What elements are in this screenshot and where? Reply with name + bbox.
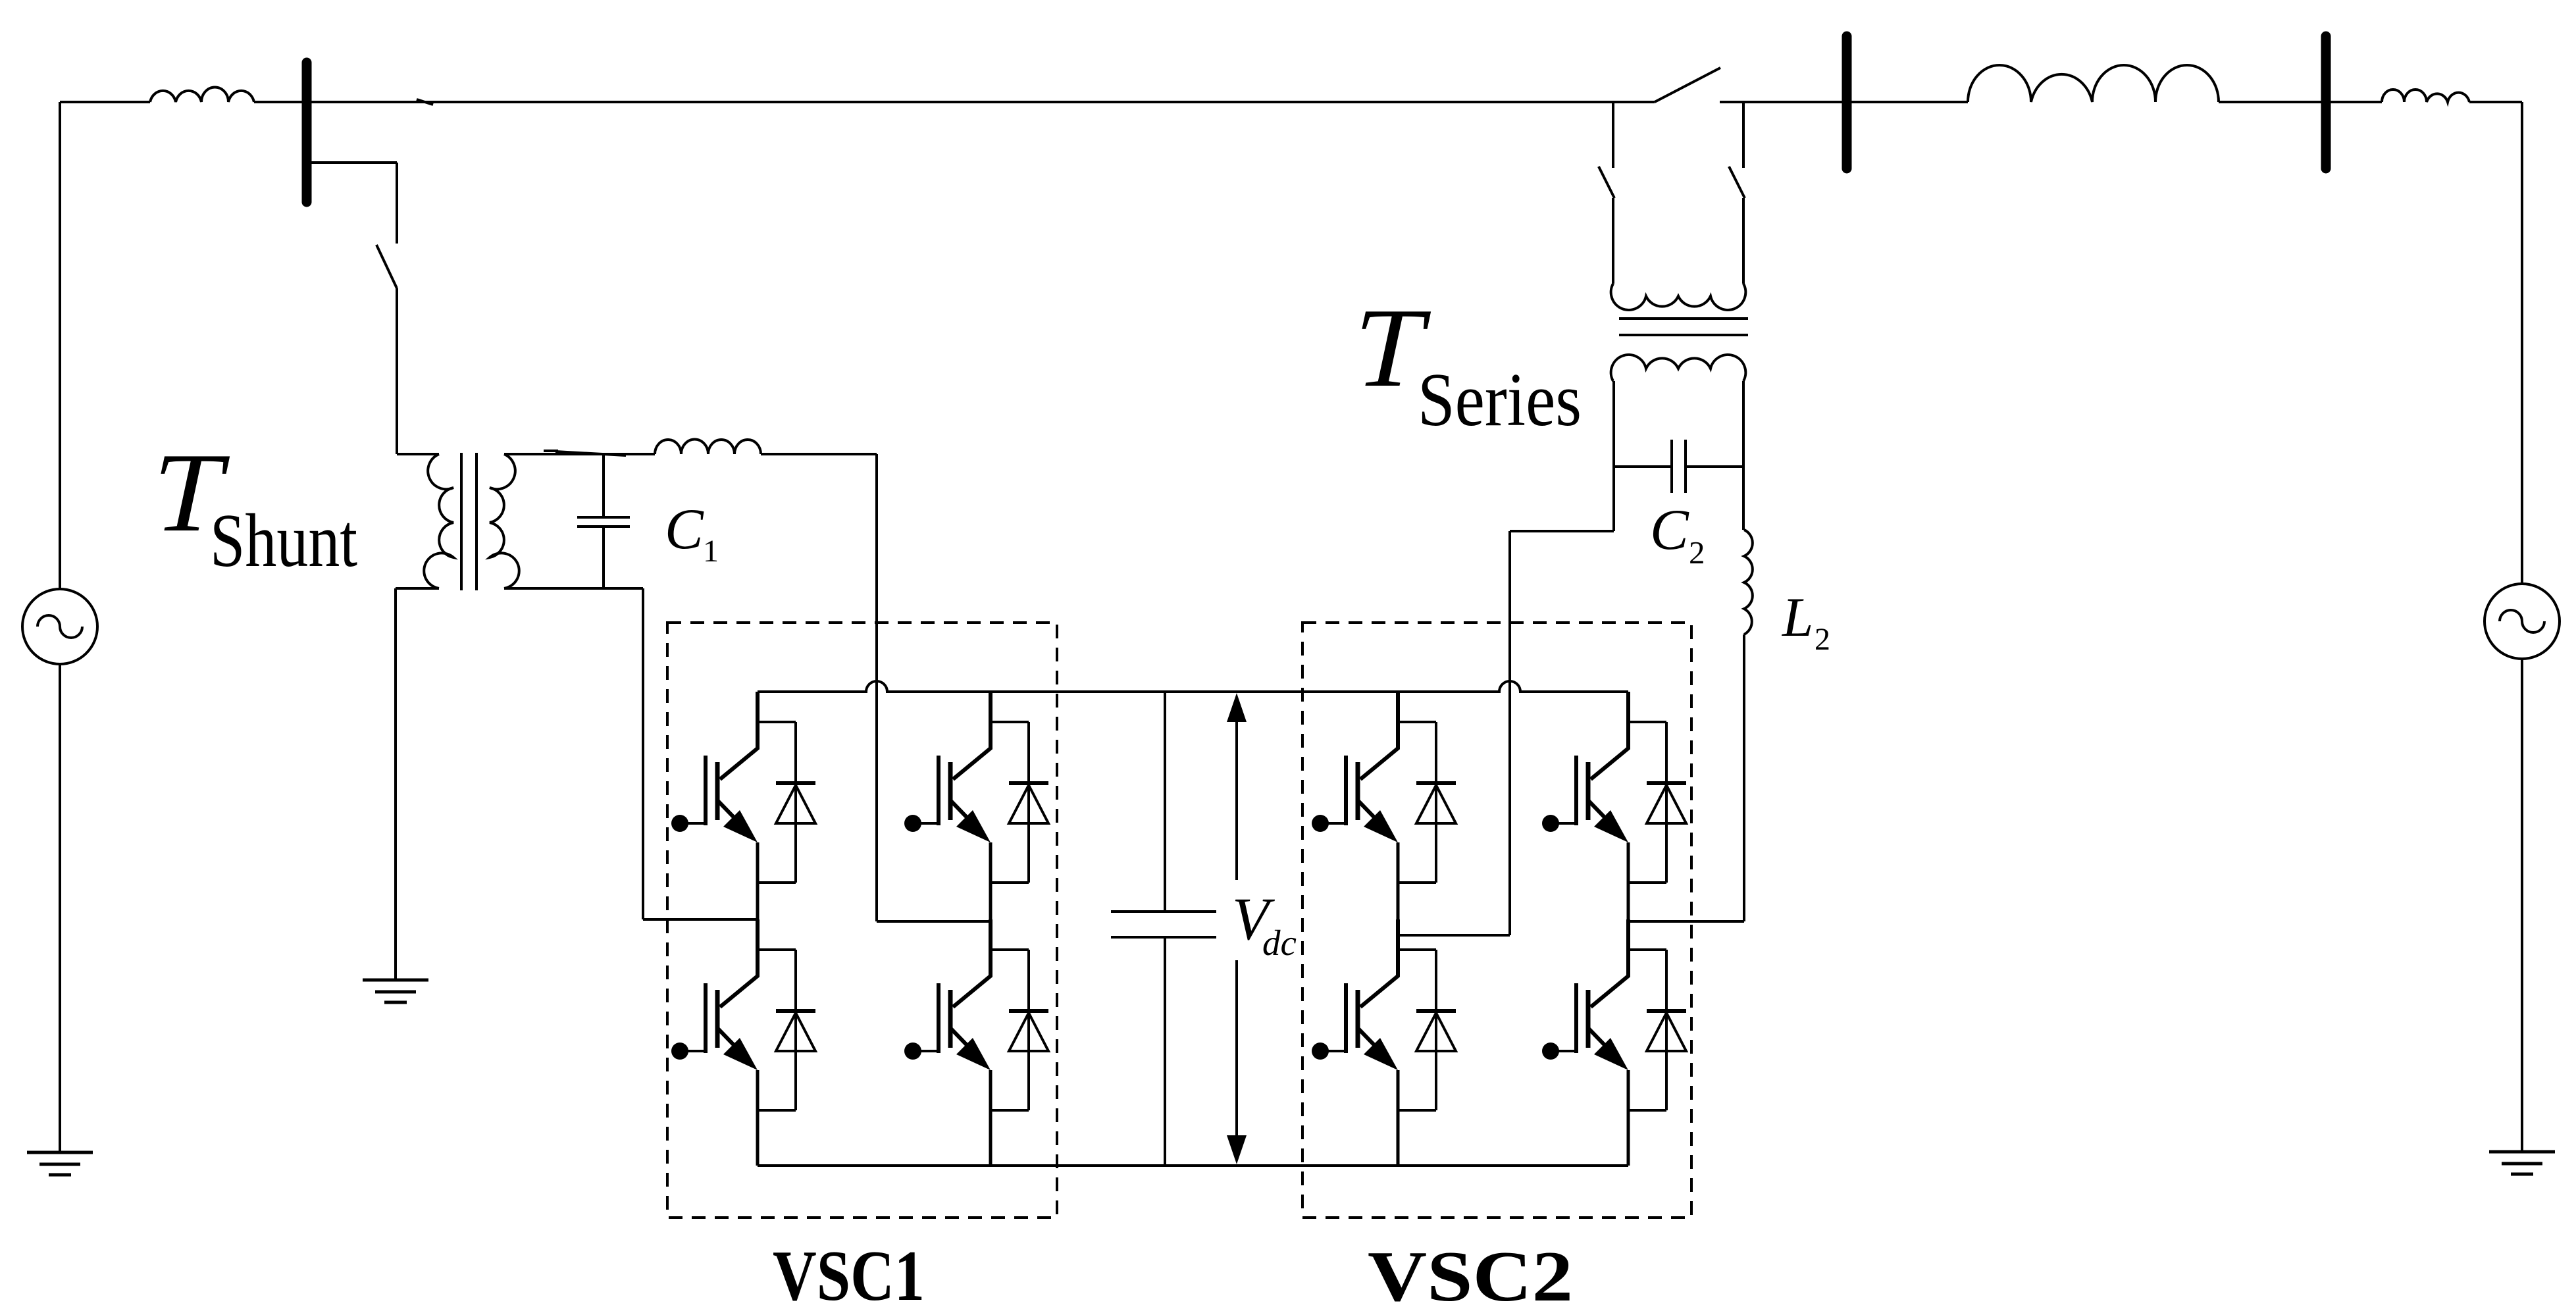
transformer T_Shunt primary winding	[424, 454, 453, 588]
label L2	[1782, 586, 1830, 657]
converter VSC1 dashed box	[667, 623, 1057, 1218]
inductor L1	[655, 439, 761, 454]
wire: right vertical source to ground	[2521, 659, 2523, 1152]
transformer T_Series core	[1619, 319, 1748, 335]
inductor L2	[1744, 530, 1753, 634]
label VSC2	[1368, 1237, 1573, 1313]
ground (left)	[27, 1152, 93, 1175]
wire: secondary bottom to VSC1 corner	[504, 588, 758, 919]
wire: top line to right corner	[2469, 101, 2522, 103]
svg-text:1: 1	[703, 534, 719, 569]
wire: secondary right lead down	[1742, 381, 1745, 467]
bus B1 (sending bus)	[302, 63, 312, 202]
wire: top line, inductor to series breaker	[254, 101, 1655, 103]
transistor Q7 (VSC2 lower-left)	[1312, 919, 1398, 1166]
wire: left vertical, source bottom to ground	[59, 664, 61, 1152]
transistor Q4 (VSC1 lower-right)	[904, 919, 991, 1166]
svg-text:C: C	[665, 498, 704, 561]
wire: L1 to VSC1 AC drop	[761, 453, 877, 455]
svg-text:Series: Series	[1418, 358, 1582, 442]
wire: C1 node to inductor L1	[626, 453, 655, 455]
transistor Q1 (VSC1 upper-left)	[671, 692, 758, 919]
wire: L2 bottom to VSC2	[1743, 634, 1745, 921]
wire: DC bus top rail (with hops)	[758, 681, 1628, 692]
wire: VSC2 right midpoint link	[1628, 920, 1744, 923]
capacitor Cdc (DC link)	[1111, 692, 1216, 1166]
svg-text:VSC1: VSC1	[773, 1236, 925, 1313]
wire: series drop right upper	[1742, 102, 1745, 168]
svg-text:L: L	[1782, 586, 1813, 648]
wire: series drop left upper	[1612, 102, 1614, 168]
diode D1	[758, 722, 815, 883]
diode D6	[1628, 722, 1686, 883]
wire: bus tap to shunt branch	[309, 161, 397, 164]
capacitor C2	[1614, 440, 1743, 493]
inductor LS3 (receiving-end inductor)	[2382, 90, 2469, 102]
ground (right)	[2489, 1152, 2555, 1174]
svg-text:Shunt: Shunt	[210, 499, 357, 583]
svg-text:2: 2	[1815, 622, 1830, 657]
breaker SW4 blade (main line bypass, open)	[1655, 68, 1720, 102]
diode D8	[1628, 950, 1686, 1110]
svg-text:C: C	[1650, 498, 1689, 562]
wire: secondary top lead to C1 node	[504, 453, 655, 455]
wire: primary top lead	[397, 453, 439, 455]
breaker SW3 blade (series right drop)	[1729, 167, 1745, 198]
capacitor C1	[577, 454, 630, 588]
wire: VSC1 right midpoint link	[877, 920, 991, 923]
svg-text:VSC2: VSC2	[1368, 1237, 1573, 1313]
wire: VSC2 left midpoint link	[1398, 934, 1510, 937]
wire: VSC2 AC drop from T_Series (hops DC bus)	[1508, 531, 1511, 935]
wire: top line from source corner to line inductor	[60, 101, 150, 103]
label C1	[665, 498, 719, 569]
label C2	[1650, 498, 1705, 571]
transformer T_Series primary winding	[1611, 284, 1746, 310]
transistor Q3 (VSC1 lower-left)	[671, 919, 758, 1166]
transformer T_Shunt core	[461, 453, 477, 590]
wire: primary bottom lead	[396, 588, 439, 980]
wire: series drop right lower	[1742, 198, 1745, 284]
wire: shunt branch vertical upper	[396, 163, 398, 244]
wire: right vertical to source	[2521, 102, 2523, 584]
transformer T_Shunt secondary winding	[490, 454, 519, 588]
transistor Q6 (VSC2 upper-right)	[1542, 692, 1628, 919]
wire: secondary left lead down	[1612, 381, 1615, 531]
label T_Shunt	[142, 430, 357, 583]
wire: series drop left lower	[1612, 198, 1614, 284]
transistor Q2 (VSC1 upper-right)	[904, 692, 991, 919]
diode D4	[991, 950, 1048, 1110]
wire: shunt branch vertical lower	[396, 288, 398, 454]
label Vdc	[1232, 885, 1297, 963]
source VS1 (left AC source)	[22, 589, 97, 664]
diode D5	[1398, 722, 1456, 883]
inductor LS1 (sending-end line inductor)	[150, 87, 254, 102]
transistor Q8 (VSC2 lower-right)	[1542, 919, 1628, 1166]
wire: top line after bypass breaker	[1720, 101, 1968, 103]
converter VSC2 dashed box	[1302, 623, 1691, 1218]
breaker SW1 blade (shunt branch)	[376, 245, 397, 288]
transformer T_Series secondary winding	[1611, 355, 1746, 381]
switch (closed) on secondary lead	[544, 451, 626, 455]
wire: top line inductor to bus B2	[2219, 101, 2382, 103]
ground (shunt transformer)	[363, 980, 428, 1002]
svg-text:2: 2	[1689, 534, 1705, 571]
svg-text:dc: dc	[1262, 923, 1297, 963]
inductor LS2 (line inductor)	[1968, 65, 2219, 102]
diode D2	[991, 722, 1048, 883]
label T_Series	[1343, 285, 1582, 442]
source VS2 (right AC source)	[2485, 584, 2560, 659]
diode D7	[1398, 950, 1456, 1110]
bus B3 (mid bus after T_Series)	[1842, 36, 1852, 168]
wire: C2 right node to L2	[1742, 467, 1745, 530]
arrow Vdc (double headed)	[1227, 693, 1247, 1164]
transistor Q5 (VSC2 upper-left)	[1312, 692, 1398, 919]
diode D3	[758, 950, 815, 1110]
breaker SW2 blade (series left drop)	[1599, 167, 1614, 198]
bus B2 (receiving bus)	[2321, 36, 2331, 168]
wire: DC bus bottom rail	[758, 1164, 1628, 1167]
wire: left vertical, source top to line	[59, 102, 61, 589]
label VSC1	[773, 1236, 925, 1313]
breaker blade (closed) on top line	[417, 99, 433, 105]
wire: VSC1 AC drop (hops DC bus)	[875, 454, 878, 921]
wire: T_Series secondary left lead horizontal	[1510, 530, 1614, 532]
